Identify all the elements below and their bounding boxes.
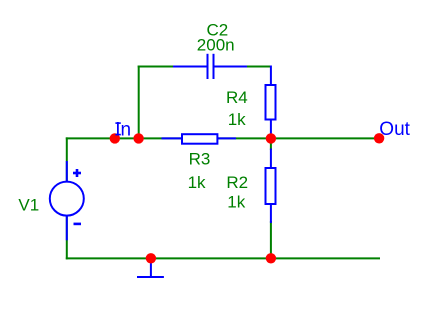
svg-text:200n: 200n [197, 35, 235, 54]
svg-text:R4: R4 [226, 88, 248, 107]
svg-text:Out: Out [379, 119, 410, 140]
svg-text:1k: 1k [227, 193, 245, 212]
svg-text:R2: R2 [226, 173, 248, 192]
svg-text:1k: 1k [228, 110, 246, 129]
svg-text:1k: 1k [188, 173, 206, 192]
svg-text:R3: R3 [189, 150, 211, 169]
svg-text:V1: V1 [18, 196, 39, 215]
